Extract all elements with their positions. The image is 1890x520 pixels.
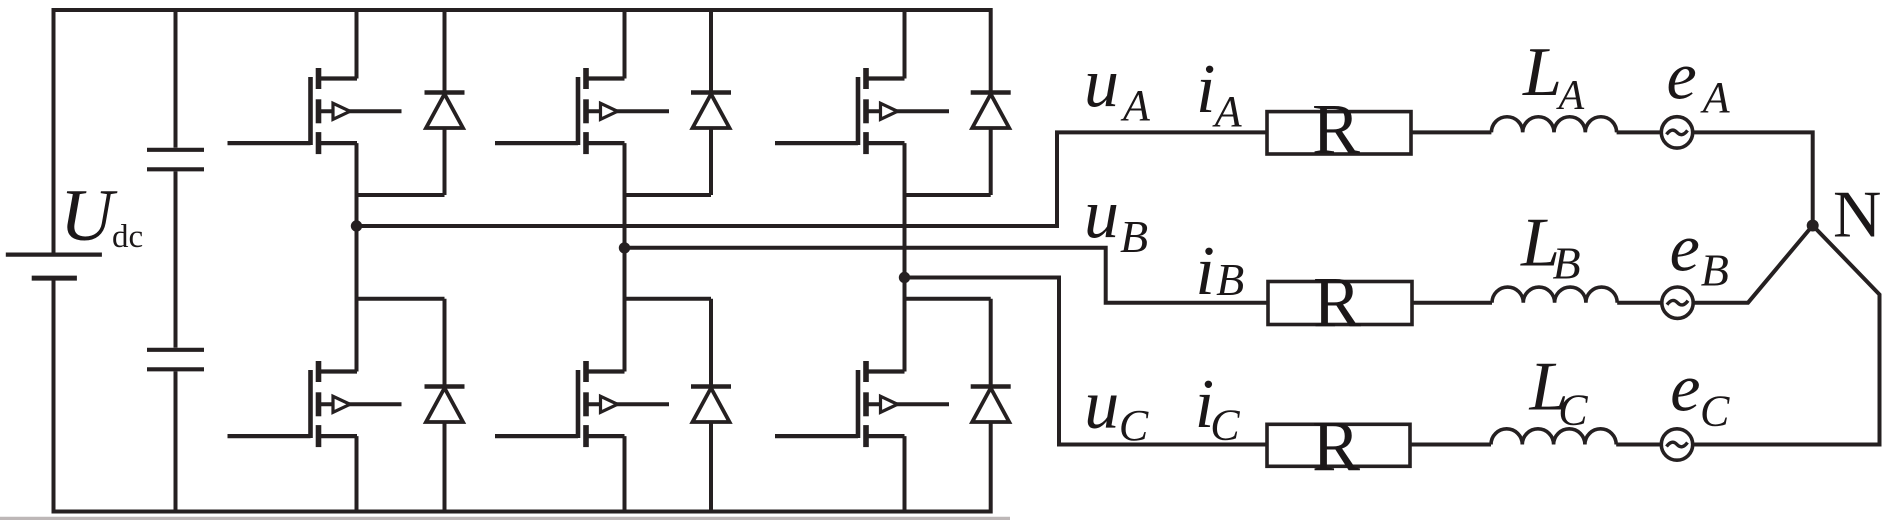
svg-text:R: R <box>1313 262 1361 342</box>
wire: R_B to L_B <box>1412 301 1492 305</box>
transistor Q6 lower phase C <box>775 361 949 447</box>
resistor R phase A <box>1267 112 1411 154</box>
svg-text:dc: dc <box>112 219 143 255</box>
battery Udc negative plate <box>32 276 77 281</box>
wire: D4 cathode link <box>357 297 445 301</box>
wire: L_A to e_A <box>1617 130 1662 134</box>
capacitor C1 <box>147 150 204 170</box>
svg-text:e: e <box>1670 350 1700 426</box>
svg-text:C: C <box>1700 387 1730 436</box>
diode D5 lower phase B <box>691 387 731 423</box>
wire: leg C midpoint vertical <box>903 143 907 371</box>
wire: D3 anode drop <box>989 129 993 196</box>
diode D2 upper phase B <box>691 93 731 129</box>
wire: D6 anode to bus <box>989 422 993 514</box>
wire: Q4 source to bus <box>355 436 359 513</box>
wire: D3 anode link <box>905 193 991 197</box>
wire: top DC bus <box>52 8 993 12</box>
wire: R_C to L_C <box>1410 443 1491 447</box>
svg-text:C: C <box>1558 385 1588 434</box>
svg-text:B: B <box>1553 238 1581 289</box>
wire: D6 cathode link <box>905 297 991 301</box>
capacitor C2 <box>147 350 204 370</box>
wire: leg B midpoint vertical <box>623 143 627 371</box>
svg-text:u: u <box>1084 45 1119 122</box>
node phase B junction <box>619 242 630 253</box>
inductor L_C <box>1491 429 1616 445</box>
battery Udc positive plate <box>6 253 102 257</box>
wire: Q3 drain to bus <box>903 8 907 79</box>
wire: phase C output <box>905 278 1268 445</box>
wire: Q1 drain to bus <box>355 8 359 79</box>
wire: D1 anode link <box>357 193 445 197</box>
wire: D2 anode link <box>625 193 712 197</box>
wire: D4 anode to bus <box>443 422 447 514</box>
svg-text:L: L <box>1522 34 1562 111</box>
source e_B circle <box>1662 287 1693 318</box>
wire: phase A output <box>357 132 1267 226</box>
source e_C circle <box>1661 429 1692 460</box>
wire: D6 cathode drop <box>989 299 993 387</box>
source e_A circle <box>1661 117 1692 148</box>
svg-text:R: R <box>1312 89 1360 169</box>
svg-text:B: B <box>1701 245 1729 296</box>
wire: D1 cathode to bus <box>443 8 447 93</box>
wire: D2 cathode to bus <box>709 8 713 93</box>
svg-text:i: i <box>1196 51 1215 128</box>
resistor R phase B <box>1268 282 1412 325</box>
wire: left DC rail lower segment <box>52 281 56 514</box>
wire: capacitor branch middle <box>174 171 178 347</box>
resistor R phase C <box>1267 424 1410 466</box>
wire: D1 anode drop <box>443 129 447 196</box>
transistor Q1 upper phase A <box>228 68 402 154</box>
wire: D3 cathode to bus <box>989 8 993 93</box>
node N junction <box>1807 220 1819 232</box>
svg-text:U: U <box>60 175 118 257</box>
wire: e_C to node N <box>1693 226 1880 445</box>
inductor L_B <box>1492 287 1617 303</box>
wire: D2 anode drop <box>709 129 713 196</box>
diode D6 lower phase C <box>971 387 1011 423</box>
transistor Q3 upper phase C <box>775 68 949 154</box>
wire: Q6 source to bus <box>903 436 907 513</box>
transistor Q2 upper phase B <box>495 68 669 154</box>
wire: capacitor branch lower <box>174 371 178 513</box>
transistor Q5 lower phase B <box>495 361 669 447</box>
svg-text:C: C <box>1210 400 1240 449</box>
svg-text:A: A <box>1212 87 1243 136</box>
diode D4 lower phase A <box>425 387 465 423</box>
svg-text:i: i <box>1195 233 1214 310</box>
svg-text:A: A <box>1556 73 1585 119</box>
wire: e_B to node N diagonal <box>1693 226 1813 303</box>
svg-text:R: R <box>1312 406 1360 486</box>
diode D3 upper phase C <box>971 93 1011 129</box>
wire: L_C to e_C <box>1616 443 1661 447</box>
node phase A junction <box>351 220 362 231</box>
svg-text:e: e <box>1670 209 1700 285</box>
wire: D4 cathode drop <box>443 299 447 387</box>
wire: e_A to node N <box>1693 132 1813 222</box>
svg-text:B: B <box>1216 254 1244 305</box>
scan artifact line <box>0 517 1010 520</box>
inductor L_A <box>1491 117 1616 133</box>
transistor Q4 lower phase A <box>228 361 402 447</box>
svg-text:N: N <box>1833 178 1881 252</box>
wire: Q5 source to bus <box>623 436 627 513</box>
wire: phase B output <box>625 248 1269 303</box>
svg-text:u: u <box>1084 176 1119 253</box>
wire: Q2 drain to bus <box>623 8 627 79</box>
wire: L_B to e_B <box>1617 301 1662 305</box>
wire: bottom DC bus <box>52 510 992 514</box>
svg-text:A: A <box>1120 81 1151 130</box>
wire: D5 cathode drop <box>709 299 713 387</box>
wire: R_A to L_A <box>1411 130 1491 134</box>
svg-text:A: A <box>1700 73 1731 122</box>
diode D1 upper phase A <box>425 93 465 129</box>
wire: left DC rail upper segment <box>52 8 56 253</box>
wire: leg A midpoint vertical <box>355 143 359 371</box>
node phase C junction <box>899 272 910 283</box>
svg-text:e: e <box>1667 37 1697 113</box>
wire: capacitor branch upper <box>174 8 178 148</box>
svg-text:u: u <box>1084 367 1119 444</box>
wire: D5 anode to bus <box>709 422 713 514</box>
wire: D5 cathode link <box>625 297 712 301</box>
svg-text:B: B <box>1120 211 1148 262</box>
svg-text:C: C <box>1119 401 1149 450</box>
